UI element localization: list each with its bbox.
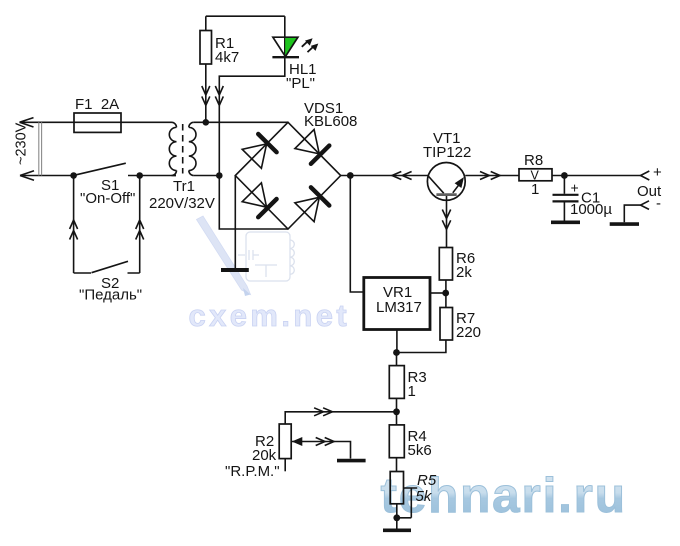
node S1 left junction <box>70 172 77 179</box>
wire emitter right <box>465 175 519 177</box>
resistor R7 <box>440 308 453 341</box>
resistor R6 <box>439 248 452 281</box>
switch S2 blade <box>74 261 140 273</box>
svg-text:F1 2A: F1 2A <box>75 96 119 113</box>
transistor internals <box>428 176 444 194</box>
wire bridge DC+ <box>341 175 428 177</box>
chevrons left toward bridge <box>392 172 412 180</box>
mains arrow bottom <box>20 171 34 180</box>
svg-text:"Педаль": "Педаль" <box>79 287 142 304</box>
svg-text:TIP122: TIP122 <box>423 144 471 161</box>
fuse F1 <box>74 113 121 132</box>
wire R1 bottom <box>205 64 207 122</box>
ground R5 <box>383 528 411 532</box>
LED sparkle arrows <box>302 41 314 52</box>
ground R2 wiper <box>337 459 366 463</box>
wire R8 to out <box>552 175 641 177</box>
transistor emitter arrowhead <box>455 177 464 188</box>
LED HL1 wire top <box>284 16 286 57</box>
svg-text:"On-Off": "On-Off" <box>80 190 135 207</box>
LED sparkle arrowheads <box>305 38 313 45</box>
wire S1 right vertical to S2 <box>139 176 141 274</box>
transformer Tr1 primary coil <box>169 122 176 175</box>
diode D4 bottom-right triangle <box>295 197 319 221</box>
svg-text:Tr1: Tr1 <box>173 178 195 195</box>
VR1 box <box>364 278 430 330</box>
svg-text:220V/32V: 220V/32V <box>149 195 215 212</box>
chevrons right R2 top wire <box>314 408 332 416</box>
wire R1 top loop <box>206 16 285 30</box>
svg-text:220: 220 <box>456 324 481 341</box>
LED HL1 triangle <box>285 38 297 56</box>
mains cord double line <box>39 122 42 175</box>
potentiometer R2 <box>279 424 291 459</box>
mains arrow top <box>20 118 34 127</box>
R2 wiper wire <box>292 442 351 459</box>
ground out- <box>610 222 639 226</box>
svg-text:+: + <box>653 164 662 181</box>
diode D3 bar <box>258 199 276 217</box>
chevrons up left wire <box>70 220 78 240</box>
wire out - <box>624 205 640 222</box>
wire VR1 adj down <box>396 330 398 353</box>
svg-text:"R.P.M.": "R.P.M." <box>225 463 280 480</box>
node bridge DC+ <box>347 172 354 179</box>
node R5 / tap / ground <box>393 514 400 521</box>
svg-text:KBL608: KBL608 <box>304 113 357 130</box>
R5 tap <box>397 488 417 518</box>
wire R7 bottom <box>397 340 446 353</box>
wire VR1 out to R6/R7 <box>430 292 446 294</box>
transformer Tr1 secondary coil <box>189 122 196 175</box>
wire top AC rail <box>20 121 75 123</box>
svg-text:-: - <box>656 195 661 212</box>
svg-text:2k: 2k <box>456 264 472 281</box>
chevrons up right wire <box>136 220 144 240</box>
wire S1 right contact <box>128 175 176 177</box>
out - chevron <box>641 201 650 210</box>
LED cathode bar <box>272 56 299 58</box>
transistor VT1 circle <box>427 163 465 201</box>
svg-text:20k: 20k <box>252 447 277 464</box>
wire to R3 <box>396 353 398 366</box>
svg-text:cxem.net: cxem.net <box>189 298 351 333</box>
chevrons down collector <box>442 210 450 230</box>
bridge diamond <box>235 122 340 229</box>
node R3 / R4 / R2 <box>393 408 400 415</box>
wire R4 to R5 <box>396 458 398 472</box>
wire AC2 to bridge bottom <box>219 176 288 230</box>
resistor R8 <box>519 169 552 181</box>
svg-text:5k: 5k <box>416 488 433 505</box>
chevrons down LED wire <box>215 86 223 105</box>
wire fuse to transformer <box>121 121 172 123</box>
transistor base bar <box>436 193 456 196</box>
wire C1 to ground <box>563 202 565 221</box>
svg-text:LM317: LM317 <box>376 299 422 316</box>
node R8 / C1 / Out+ <box>561 172 568 179</box>
chevrons down R1 wire <box>202 86 210 105</box>
wire DC+ down to VR1 <box>350 176 364 293</box>
svg-text:~230V: ~230V <box>14 122 30 165</box>
out + chevron <box>641 171 650 180</box>
wire S1 left vertical to S2 <box>73 176 75 274</box>
diode D2 bar <box>311 146 329 164</box>
svg-text:5k6: 5k6 <box>408 442 432 459</box>
ground C1 <box>551 221 580 225</box>
transformer core <box>182 124 184 174</box>
wire R6 to R7 <box>445 280 447 308</box>
resistor R3 <box>389 366 404 399</box>
svg-text:+: + <box>571 179 579 195</box>
resistor R5 trimmer <box>390 472 403 504</box>
wire R2 branch <box>285 412 396 424</box>
capacitor C1 plates <box>553 195 579 202</box>
ground bridge <box>221 268 249 272</box>
svg-text:R5: R5 <box>417 472 437 489</box>
wire bridge DC- down <box>234 176 236 269</box>
watermark logo pencil <box>197 216 251 296</box>
switch S1 blade <box>75 163 126 175</box>
wire LED down <box>219 57 284 175</box>
node secondary top / R1 <box>203 119 210 126</box>
chevrons right wiper <box>316 438 334 446</box>
watermark logo box with coil <box>238 232 294 281</box>
wire secondary bottom <box>194 175 220 177</box>
diode D2 top-right triangle <box>295 130 319 154</box>
svg-text:R8: R8 <box>524 152 543 169</box>
resistor R4 <box>389 425 404 458</box>
svg-text:4k7: 4k7 <box>215 49 239 66</box>
chevrons right to R8 <box>480 172 500 180</box>
svg-text:1: 1 <box>531 181 539 198</box>
wire secondary top to rail <box>194 121 288 123</box>
diode D3 bottom-left triangle <box>242 183 266 207</box>
svg-text:1: 1 <box>408 383 416 400</box>
node AC2 / HL1 <box>216 172 223 179</box>
node S1 right junction <box>136 172 143 179</box>
wire bottom AC rail left <box>20 175 74 177</box>
node VR1 out / R6 / R7 <box>442 290 449 297</box>
R2 wiper arrowhead <box>292 437 303 446</box>
diode D1 top-left triangle <box>242 144 266 168</box>
capacitor C1 wire <box>563 176 565 194</box>
diode D1 bar <box>258 134 276 152</box>
svg-text:1000µ: 1000µ <box>570 201 612 218</box>
resistor R1 <box>200 31 212 65</box>
wire R5 bottom <box>396 504 398 529</box>
wire R3 to R4 <box>396 398 398 425</box>
svg-text:"PL": "PL" <box>286 75 315 92</box>
diode bars (bold) <box>258 134 329 217</box>
diode D4 bar <box>311 187 329 205</box>
node VR1 adj / R7 / R3 <box>393 349 400 356</box>
R2 bottom stub <box>284 459 286 472</box>
